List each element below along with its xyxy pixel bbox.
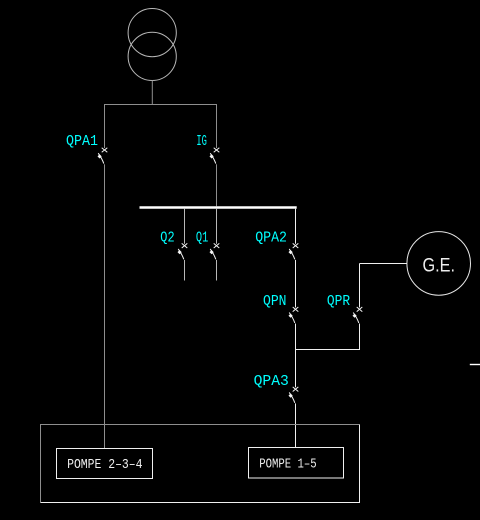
svg-text:POMPE 2–3–4: POMPE 2–3–4	[67, 457, 142, 473]
breaker QPR	[353, 307, 363, 323]
breaker QPA1	[98, 148, 108, 164]
svg-text:QPA2: QPA2	[255, 229, 287, 246]
box POMPE 1-5	[249, 448, 344, 479]
svg-text:QPR: QPR	[327, 293, 350, 310]
svg-text:Q1: Q1	[196, 229, 208, 246]
enclosure outer box top and left edges	[41, 425, 360, 503]
svg-text:QPA3: QPA3	[254, 373, 289, 390]
title block edge line right margin	[470, 364, 480, 366]
wire bus1 with drops to QPA1 and IG	[105, 105, 217, 149]
svg-text:IG: IG	[196, 133, 207, 150]
breaker QPA2	[289, 243, 299, 259]
transformer T1 primary winding circle	[128, 8, 176, 56]
bus bar bus2	[140, 206, 297, 208]
breaker IG	[210, 148, 220, 164]
generator G.E. circle	[407, 232, 471, 296]
box POMPE 2-3-4	[57, 449, 153, 479]
wire bus2 drop to Q1	[216, 209, 218, 244]
wire bus2 drop to QPA2	[295, 209, 297, 244]
svg-text:QPN: QPN	[263, 293, 287, 310]
breaker QPN	[289, 307, 299, 323]
breaker Q1	[210, 243, 220, 259]
wire QPA3 down to POMPE 1-5 box	[295, 403, 297, 447]
wire Q2 stub	[184, 260, 186, 281]
wire IG down to bus2	[216, 164, 218, 206]
wire bus2 drop to Q2	[184, 209, 186, 244]
breaker Q2	[178, 243, 188, 259]
wire QPR lower and tie-in to QPN column	[296, 324, 360, 350]
wire QPN down to QPA3	[295, 324, 297, 388]
breaker QPA3	[289, 387, 299, 403]
svg-text:QPA1: QPA1	[66, 133, 98, 150]
wire QPR upper	[359, 264, 361, 308]
transformer T1 secondary winding circle	[128, 32, 176, 80]
svg-text:Q2: Q2	[160, 229, 174, 246]
wire Q1 stub	[216, 260, 218, 281]
wire transformer stem to bus1	[151, 81, 153, 105]
svg-text:G.E.: G.E.	[423, 255, 456, 276]
enclosure outer box bottom and right edges	[41, 425, 360, 503]
wire G.E. feed to QPR	[360, 263, 408, 265]
svg-text:POMPE 1–5: POMPE 1–5	[259, 457, 317, 473]
wire QPA2 to QPN	[295, 260, 297, 308]
wire QPA1 down to POMPE 2-3-4 box	[104, 164, 106, 448]
